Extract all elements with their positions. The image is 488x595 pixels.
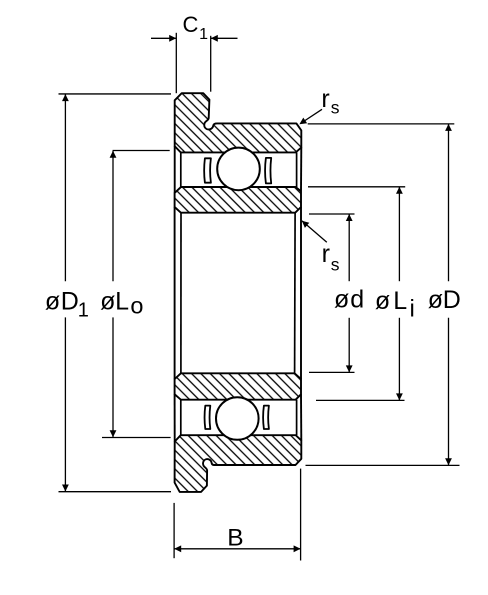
svg-text:d: d bbox=[350, 286, 364, 314]
dimension D line with arrows bbox=[448, 124, 450, 281]
raceway gap inner edge lines, bottom section bbox=[180, 400, 182, 436]
inner ring, bottom cross-section bbox=[175, 373, 301, 399]
dimension D1 line with arrows bbox=[64, 94, 66, 281]
svg-text:B: B bbox=[227, 524, 243, 551]
dimension Li top extension line bbox=[308, 186, 405, 188]
cage mark, top left bbox=[204, 158, 211, 182]
dimension Lo bottom extension line bbox=[102, 437, 171, 439]
dimension d bottom extension line bbox=[309, 371, 355, 373]
rs leader, inner ring corner bbox=[302, 221, 327, 242]
ball, bottom bbox=[216, 397, 259, 440]
outer ring with flange, top cross-section bbox=[175, 93, 302, 152]
svg-text:o: o bbox=[130, 293, 143, 319]
svg-text:ø: ø bbox=[334, 286, 349, 314]
dimension Li line with arrows bbox=[398, 187, 400, 281]
outer ring with flange, bottom cross-section bbox=[175, 435, 302, 492]
dimension B line with arrows bbox=[174, 548, 300, 550]
bore chamfer edge lines bbox=[180, 213, 182, 374]
dimension D1 top extension line bbox=[59, 93, 172, 95]
dimension Li bottom extension line bbox=[316, 399, 405, 401]
dimension C1 extension line left bbox=[175, 33, 177, 93]
svg-text:s: s bbox=[331, 255, 340, 275]
right face line segments across raceway gaps and bore bbox=[300, 147, 302, 191]
ball, top bbox=[217, 148, 260, 191]
raceway gap inner edge lines, top section bbox=[180, 152, 182, 187]
dimension d top extension line bbox=[309, 213, 355, 215]
svg-text:1: 1 bbox=[78, 300, 89, 322]
cage mark, top right bbox=[265, 158, 271, 184]
svg-text:ø: ø bbox=[45, 288, 60, 316]
svg-text:L: L bbox=[115, 288, 129, 316]
svg-text:C: C bbox=[183, 12, 199, 37]
svg-text:s: s bbox=[331, 97, 340, 117]
dimension D1 bottom extension line bbox=[59, 491, 172, 493]
svg-text:i: i bbox=[410, 296, 415, 323]
svg-text:1: 1 bbox=[199, 26, 208, 43]
dimension D bottom extension line bbox=[306, 464, 460, 466]
inner ring, top cross-section bbox=[175, 187, 301, 213]
svg-text:D: D bbox=[61, 288, 79, 316]
rs leader, top outer corner bbox=[301, 109, 323, 123]
svg-text:L: L bbox=[393, 287, 407, 315]
dimension d line with arrows bbox=[348, 214, 350, 281]
dimension B left extension line bbox=[173, 503, 175, 558]
dimension Lo line with arrows bbox=[112, 151, 114, 282]
cage mark, bottom left bbox=[205, 406, 211, 429]
dimension C1 extension line right bbox=[210, 36, 212, 92]
svg-text:ø: ø bbox=[375, 287, 390, 315]
svg-text:ø: ø bbox=[100, 288, 115, 316]
dimension B right extension line bbox=[300, 469, 302, 561]
cage mark, bottom right bbox=[263, 406, 269, 429]
svg-text:r: r bbox=[321, 85, 329, 113]
svg-text:r: r bbox=[322, 240, 330, 268]
dimension C1 left arrow bbox=[151, 37, 176, 39]
svg-text:ø: ø bbox=[428, 286, 443, 314]
dimension D top extension line bbox=[308, 123, 455, 125]
dimension Lo top extension line bbox=[113, 150, 170, 152]
dimension C1 right arrow bbox=[211, 37, 238, 39]
left face line segments across raceway gaps and bore bbox=[174, 146, 176, 193]
svg-text:D: D bbox=[443, 286, 461, 314]
